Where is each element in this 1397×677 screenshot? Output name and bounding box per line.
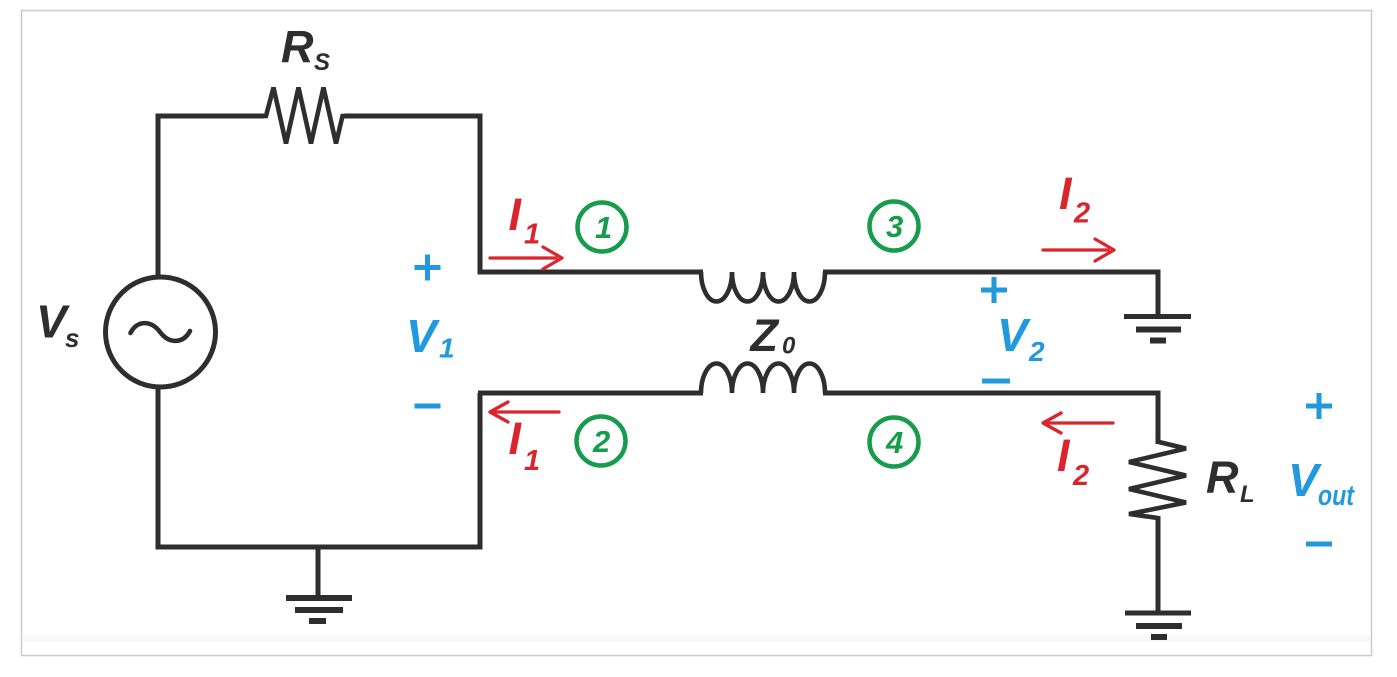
svg-text:I: I (1059, 168, 1073, 219)
svg-text:1: 1 (595, 210, 612, 245)
svg-text:3: 3 (886, 209, 903, 244)
wire upper line right segment to top-right ground (823, 272, 1158, 314)
resistor RS zigzag (261, 88, 347, 144)
Vout minus sign (1306, 542, 1332, 547)
ground symbol bottom-left (286, 547, 352, 621)
svg-text:I: I (509, 413, 523, 464)
ground symbol bottom-right (1125, 613, 1191, 637)
inductor coil Z0 lower line (701, 364, 825, 394)
V2 plus sign (981, 277, 1007, 303)
svg-text:4: 4 (885, 425, 903, 460)
svg-text:0: 0 (782, 333, 796, 360)
V1 minus sign (415, 404, 441, 409)
wire top-left segment and left vertical to source (158, 116, 264, 279)
svg-text:2: 2 (592, 424, 610, 459)
svg-text:out: out (1318, 480, 1355, 512)
svg-text:s: s (65, 323, 79, 353)
wire lower line left segment (478, 391, 703, 396)
svg-text:2: 2 (1072, 460, 1089, 492)
svg-text:Z: Z (749, 310, 780, 361)
voltage source VS circle (106, 277, 216, 387)
svg-text:I: I (1057, 430, 1071, 481)
current arrow I1 out of port 2 (490, 402, 559, 422)
resistor RL vertical zigzag (1129, 441, 1186, 518)
Vout plus sign (1306, 393, 1332, 419)
svg-text:V: V (1288, 454, 1322, 506)
svg-text:1: 1 (439, 333, 455, 364)
svg-text:R: R (281, 22, 314, 73)
wire source bottom, bottom horizontal, lower-left vertical to node 2 (158, 385, 480, 547)
sine symbol inside source (131, 323, 191, 341)
svg-text:I: I (509, 189, 523, 240)
svg-text:1: 1 (524, 445, 540, 477)
wire load resistor to bottom-right ground (1156, 516, 1161, 611)
current arrow I2 out of node 3 (1043, 239, 1114, 261)
wire lower line right segment down to load resistor (823, 393, 1158, 444)
node 2 circle (577, 417, 626, 466)
node 4 circle (870, 418, 919, 467)
node 1 circle (578, 203, 627, 252)
svg-text:2: 2 (1028, 336, 1045, 367)
svg-text:L: L (1240, 481, 1255, 508)
svg-text:1: 1 (524, 219, 540, 251)
inductor coil Z0 upper line (701, 272, 825, 302)
svg-text:S: S (314, 49, 330, 76)
current arrow I2 into node 4 (1043, 413, 1113, 433)
svg-text:V: V (406, 310, 440, 362)
V2 minus sign (982, 379, 1010, 384)
svg-text:2: 2 (1073, 198, 1090, 230)
node 3 circle (870, 202, 919, 251)
svg-text:V: V (997, 309, 1031, 361)
V1 plus sign (415, 255, 441, 281)
current arrow I1 into port 1 (490, 247, 562, 269)
svg-text:R: R (1206, 452, 1239, 503)
ground symbol top-right (1124, 317, 1191, 341)
wire top right segment down to node 1 and upper line left segment (344, 116, 703, 272)
